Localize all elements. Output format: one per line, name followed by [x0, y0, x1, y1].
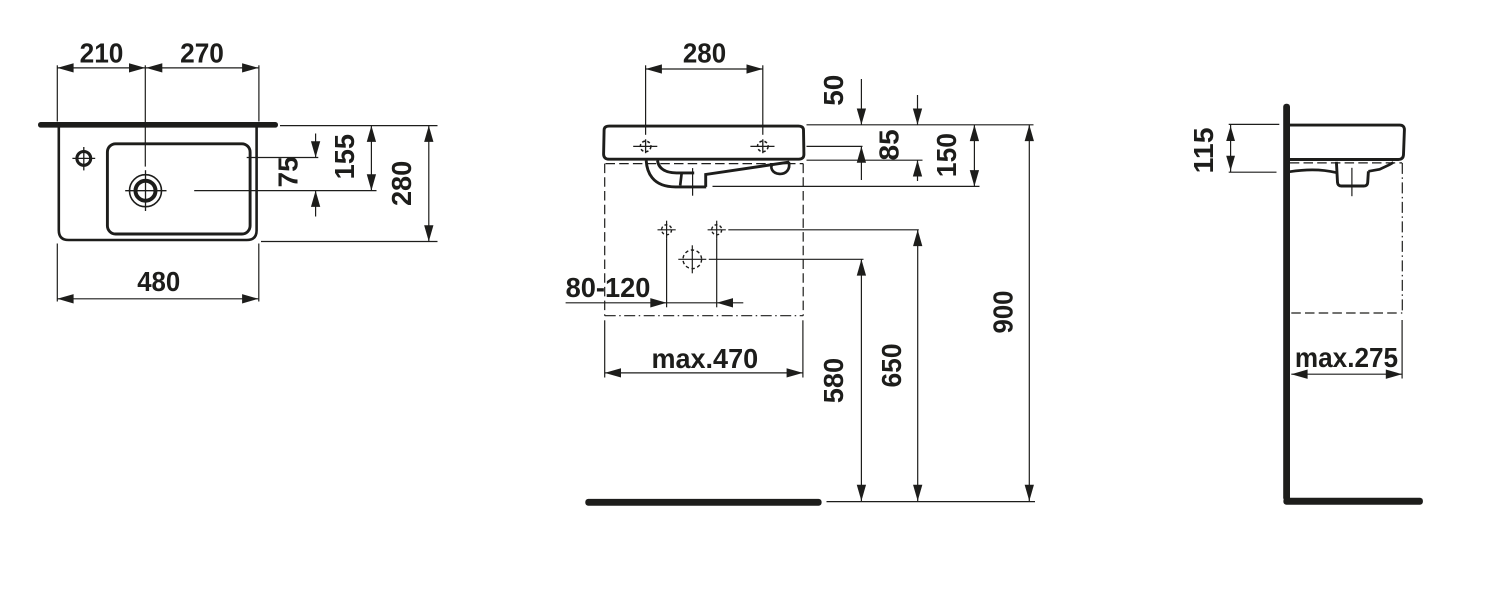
basin body (front view) — [604, 126, 804, 159]
lower holes reference line — [728, 229, 919, 231]
svg-text:115: 115 — [1188, 127, 1219, 173]
dimension text 75 — [272, 156, 303, 187]
extension line right hole — [762, 65, 764, 135]
svg-text:85: 85 — [874, 129, 905, 160]
basin inner bowl (left view) — [107, 144, 250, 234]
lower left fixing hole (dashed) — [658, 221, 676, 239]
dimension text 480 — [137, 266, 180, 297]
floor line (front view) — [585, 499, 821, 506]
drain hole reference line — [709, 258, 864, 260]
top extension line 115 — [1229, 123, 1280, 125]
dimension text max.470 — [651, 343, 758, 374]
dimension text 270 — [180, 37, 224, 68]
bottom extension line 115 — [1229, 171, 1277, 173]
dimension 155 — [367, 126, 376, 191]
floor line (side view) — [1283, 498, 1423, 505]
body bottom reference line — [807, 159, 923, 161]
drain bottom reference line — [713, 185, 980, 187]
dimension line max.275 — [1291, 370, 1402, 379]
svg-text:50: 50 — [818, 75, 849, 106]
lower right fixing hole (dashed) — [708, 221, 726, 239]
extension line left edge (210) — [56, 65, 58, 121]
tap hole reference line — [247, 157, 319, 159]
svg-text:75: 75 — [272, 156, 303, 187]
dimension line 480 — [57, 294, 258, 303]
right fixing hole (front view) — [750, 139, 774, 153]
bowl bottom diagonal (front view) — [706, 162, 790, 187]
dimension text 80-120 — [566, 272, 651, 303]
dimension text max.275 — [1295, 342, 1398, 373]
drain hole (dashed, front view) — [678, 245, 706, 273]
wall line (plan, left view) — [38, 122, 278, 128]
dimension text 210 — [80, 37, 124, 68]
hidden outline dash-dot bottom — [605, 315, 804, 317]
bottom extension line (280) — [261, 241, 438, 243]
svg-text:210: 210 — [80, 37, 124, 68]
lower hole extension right — [716, 239, 718, 307]
drain box (side view) — [1336, 162, 1368, 186]
basin body (side view) — [1290, 125, 1405, 159]
svg-text:900: 900 — [987, 291, 1018, 334]
svg-text:650: 650 — [876, 344, 907, 388]
dimension 900 — [1025, 125, 1034, 501]
dimension text 900 — [987, 291, 1018, 334]
top extension line (155/280) — [280, 125, 438, 127]
extension line right edge (270) — [258, 65, 260, 121]
dimension text 50 — [818, 75, 849, 106]
svg-text:480: 480 — [137, 266, 180, 297]
dimension text 650 — [876, 344, 907, 388]
hidden outline dashed under body — [606, 163, 804, 165]
svg-text:max.275: max.275 — [1295, 342, 1398, 373]
bowl underside outer curve (front view) — [646, 161, 706, 187]
dimension 150 — [970, 125, 979, 187]
dimension text 580 — [818, 358, 849, 403]
bowl underside right slope (side view) — [1368, 162, 1393, 171]
centerline through drain — [144, 65, 146, 166]
dimension 50 — [857, 79, 866, 180]
dimension 115 — [1226, 124, 1235, 172]
tap hole (left view) — [72, 147, 95, 170]
svg-text:270: 270 — [180, 37, 224, 68]
svg-text:280: 280 — [386, 161, 417, 206]
top edge reference line — [807, 124, 1034, 126]
hidden dash-dot vertical (side view) — [1401, 163, 1403, 313]
fixing hole reference line — [807, 145, 863, 147]
extension lines 480 — [57, 244, 258, 302]
drain outlet (left view) — [125, 170, 166, 211]
hidden outline dashed left vertical — [604, 164, 606, 316]
svg-text:max.470: max.470 — [651, 343, 758, 374]
dimension text 115 — [1188, 127, 1219, 173]
wall line (side view) — [1283, 104, 1290, 501]
dimension text 85 — [874, 129, 905, 160]
drain centerline (front view) — [692, 168, 694, 196]
bowl underside left slope (side view) — [1290, 170, 1336, 173]
svg-text:580: 580 — [818, 358, 849, 403]
dimension line 80-120 — [566, 298, 744, 307]
dimension line 280 (front) — [646, 64, 763, 73]
dimension 650 — [913, 230, 922, 501]
svg-text:280: 280 — [683, 37, 726, 68]
dimension 75 — [311, 134, 320, 217]
hidden dashed line under body (side view) — [1290, 162, 1402, 164]
basin outer body (left view) — [59, 126, 257, 240]
bowl underside inner curve (front view) — [658, 161, 695, 173]
lower hole extension left — [666, 239, 668, 307]
dimension 580 — [857, 259, 866, 501]
svg-text:155: 155 — [329, 134, 360, 179]
drain reference line — [194, 190, 376, 192]
left fixing hole (front view) — [633, 139, 657, 153]
dimension line max.470 — [605, 368, 803, 377]
drain pipe (front view) — [680, 174, 681, 186]
extension line left hole — [645, 65, 647, 135]
hidden outline dashed right vertical — [802, 164, 804, 316]
dimension text 155 — [329, 134, 360, 179]
svg-text:80-120: 80-120 — [566, 272, 651, 303]
drain centerline (side view) — [1351, 168, 1353, 196]
svg-text:150: 150 — [931, 133, 962, 177]
dimension text 280 side — [386, 161, 417, 206]
overflow hook (front view) — [771, 162, 789, 174]
hidden dashed bottom (side view) — [1291, 312, 1402, 314]
dimension text 280 front — [683, 37, 726, 68]
dimension 85 — [913, 95, 922, 181]
extension line max.275 — [1401, 320, 1403, 379]
floor reference line — [827, 501, 1036, 503]
dimension 280 (left view) — [424, 126, 433, 242]
dimension line 210/270 — [57, 63, 258, 72]
extension lines max.470 — [605, 320, 803, 377]
dimension text 150 — [931, 133, 962, 177]
